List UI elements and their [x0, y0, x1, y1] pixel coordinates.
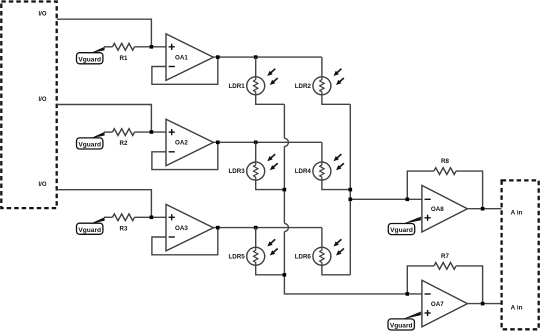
wire OA8 feedback right: [456, 171, 483, 209]
probe Vguard (OA7 +): [388, 319, 414, 330]
svg-text:Vguard: Vguard: [78, 142, 101, 149]
wire to LDR5 top: [255, 228, 257, 248]
junction OA2 + input: [150, 130, 154, 134]
probe Vguard (OA1 input): [77, 53, 103, 64]
wire R2 to OA2: [135, 131, 167, 133]
svg-text:R8: R8: [441, 158, 449, 165]
wire OA8 feedback left: [407, 171, 434, 199]
op-amp OA2: [166, 119, 213, 166]
svg-text:OA1: OA1: [175, 55, 188, 62]
junction OA7 - input: [406, 292, 410, 296]
svg-text:OA8: OA8: [431, 206, 444, 213]
wire LDR1 bottom: [256, 95, 285, 105]
svg-text:I/O: I/O: [38, 97, 46, 103]
photoresistor LDR2: [313, 77, 331, 95]
svg-text:Vguard: Vguard: [78, 56, 101, 63]
wire OA2 feedback: [152, 142, 218, 169]
svg-text:A in: A in: [511, 305, 523, 312]
photoresistor LDR1: [247, 77, 265, 95]
wire LDR2 bottom: [322, 95, 350, 105]
junction OA8 output: [481, 207, 485, 211]
photoresistor LDR3: [247, 162, 265, 180]
svg-text:Vguard: Vguard: [390, 227, 413, 234]
probe Vguard (OA3 input): [77, 223, 103, 234]
junction OA8 - input: [406, 198, 410, 202]
junction bus LDR1: [254, 55, 258, 59]
svg-text:R1: R1: [120, 55, 128, 62]
resistor R8: [434, 168, 456, 175]
svg-text:LDR4: LDR4: [295, 168, 312, 175]
svg-text:I/O: I/O: [38, 12, 46, 18]
wire I/O 3 to OA3 + input: [57, 190, 152, 218]
junction OA1 + input: [150, 45, 154, 49]
svg-text:I/O: I/O: [38, 182, 46, 188]
svg-text:LDR1: LDR1: [229, 83, 246, 90]
wire OA8 output: [467, 208, 501, 210]
svg-text:A in: A in: [511, 209, 523, 216]
wire to LDR3 top: [255, 142, 257, 162]
wire OA1 output bus: [213, 56, 322, 58]
svg-text:LDR6: LDR6: [295, 254, 312, 261]
svg-text:R3: R3: [120, 225, 128, 232]
op-amp OA1: [166, 34, 213, 81]
wire to LDR1 top: [255, 57, 257, 77]
wire R3 to OA3: [135, 216, 167, 218]
junction OA7 output: [481, 302, 485, 306]
wire LDR3 bottom: [256, 180, 285, 190]
wire bus A (LDR1/3/5 to OA7): [283, 104, 285, 138]
op-amp OA7: [422, 280, 468, 327]
junction OA3 + input: [150, 216, 154, 220]
wire bus B (LDR2/4/6 to OA8): [349, 104, 351, 274]
wire OA7 output: [467, 303, 501, 305]
right A-in port box (dashed): [502, 180, 539, 329]
junction OA2 output: [216, 141, 220, 145]
wire OA1 feedback: [152, 57, 218, 84]
wire OA3 output bus: [213, 227, 322, 229]
wire bus B to OA8 - input: [350, 198, 422, 200]
photoresistor LDR4: [313, 162, 331, 180]
probe Vguard (OA2 input): [77, 138, 103, 149]
junction bus A / LDR3: [283, 188, 287, 192]
photoresistor LDR6: [313, 247, 331, 265]
junction bus B / OA8 input: [349, 198, 353, 202]
op-amp OA3: [166, 204, 213, 251]
wire I/O 1 to OA1 + input: [57, 19, 152, 47]
junction bus B / LDR4: [349, 188, 353, 192]
wire to LDR6 top: [321, 228, 323, 248]
resistor R7: [434, 263, 456, 270]
junction bus LDR3: [254, 141, 258, 145]
wire OA3 feedback: [152, 228, 218, 255]
svg-text:LDR3: LDR3: [229, 168, 246, 175]
wire probe to R3: [104, 216, 113, 218]
svg-text:OA3: OA3: [175, 225, 188, 232]
wire OA7 feedback right: [456, 266, 483, 304]
wire LDR6 bottom: [322, 265, 350, 275]
wire to LDR2 top: [321, 57, 323, 77]
wire I/O 2 to OA2 + input: [57, 105, 152, 133]
wire to LDR4 top: [321, 142, 323, 162]
wire probe to R1: [104, 46, 113, 48]
junction OA3 output: [216, 226, 220, 230]
svg-text:Vguard: Vguard: [390, 323, 413, 330]
wire OA7 feedback left: [407, 266, 434, 294]
op-amp OA8: [422, 185, 468, 232]
svg-text:OA2: OA2: [175, 140, 188, 147]
svg-text:R2: R2: [120, 140, 128, 147]
junction bus A / LDR5: [283, 273, 287, 277]
svg-text:R7: R7: [441, 253, 449, 260]
junction bus LDR5: [254, 226, 258, 230]
left I/O port box (dashed): [1, 2, 56, 209]
junction OA1 output: [216, 55, 220, 59]
wire probe to R2: [104, 131, 113, 133]
svg-text:LDR2: LDR2: [295, 83, 312, 90]
wire R1 to OA1: [135, 46, 167, 48]
photoresistor LDR5: [247, 247, 265, 265]
probe Vguard (OA8 +): [388, 224, 414, 235]
svg-text:Vguard: Vguard: [78, 227, 101, 234]
resistor R2: [113, 129, 135, 136]
wire OA2 output bus: [213, 141, 322, 143]
wire LDR4 bottom: [322, 180, 350, 190]
wire LDR5 bottom: [256, 265, 285, 275]
resistor R1: [113, 43, 135, 50]
svg-text:LDR5: LDR5: [229, 254, 246, 261]
resistor R3: [113, 214, 135, 221]
svg-text:OA7: OA7: [431, 301, 444, 308]
